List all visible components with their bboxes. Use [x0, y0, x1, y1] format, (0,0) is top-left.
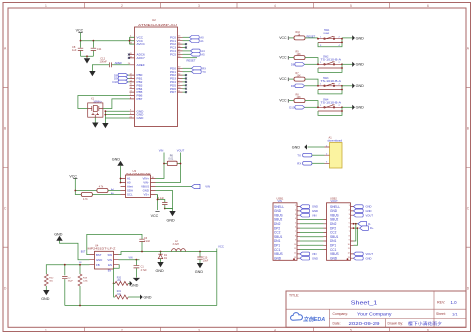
svg-text:10: 10 [294, 244, 296, 246]
net port A0 [183, 36, 205, 40]
svg-text:PB7: PB7 [137, 97, 143, 101]
switch SW4 TS-1010-B-A [318, 98, 342, 111]
svg-text:GND: GND [41, 297, 50, 301]
svg-text:12: 12 [294, 253, 296, 255]
svg-text:VCC: VCC [69, 174, 77, 178]
svg-text:9: 9 [349, 240, 350, 242]
U2 left pin stubs [130, 37, 135, 118]
svg-text:2: 2 [121, 4, 123, 8]
svg-text:GND: GND [274, 256, 282, 260]
capacitor C1 4.7uF [134, 260, 148, 278]
svg-text:VOUT: VOUT [177, 149, 185, 153]
svg-text:8: 8 [295, 235, 296, 237]
svg-text:D10: D10 [289, 106, 295, 110]
net port A1 [183, 39, 205, 43]
svg-text:樱下小清花雨夕: 樱下小清花雨夕 [408, 320, 442, 326]
svg-text:SW: SW [107, 253, 112, 257]
wire EN divider down [114, 283, 115, 297]
resistor R10 1k [294, 31, 318, 40]
U2 right pin stubs [178, 37, 183, 92]
net port GND (USB2) [354, 209, 372, 213]
svg-text:1/1: 1/1 [452, 311, 458, 316]
ground (R22) [41, 290, 50, 301]
USB1 pin numbers [294, 205, 296, 259]
svg-text:10uF: 10uF [203, 259, 209, 262]
resistor R21 10k [115, 291, 140, 299]
svg-text:EN: EN [108, 263, 112, 267]
svg-text:2: 2 [295, 210, 296, 212]
svg-text:VCC: VCC [218, 244, 224, 248]
connector A1 download [325, 136, 343, 169]
svg-text:BST: BST [96, 253, 102, 257]
ground (under C8/C11) [84, 58, 90, 63]
wire USB1-USB2 data/cc lines [300, 220, 324, 250]
svg-text:11: 11 [294, 248, 296, 250]
power flag VCC (SW3 row) [279, 77, 294, 81]
node VCC rail junctions [80, 40, 82, 42]
svg-text:7: 7 [295, 231, 296, 233]
svg-text:A4: A4 [201, 49, 205, 53]
svg-text:5: 5 [350, 328, 352, 332]
net port VIN (VBUS pin) [156, 184, 210, 188]
wire U4 GND pin to top-left ground [60, 240, 90, 260]
svg-text:GND: GND [112, 157, 121, 161]
no-connect marks [128, 43, 187, 93]
power flag VCC (U3 pullups) [69, 174, 77, 190]
svg-text:4.7k: 4.7k [83, 198, 88, 201]
svg-text:1: 1 [45, 4, 47, 8]
capacitor C6 2.2uF [139, 237, 150, 252]
net port GND (USB1 bottom) [300, 256, 318, 260]
svg-text:GND: GND [144, 296, 152, 300]
resistor R19 120k [78, 274, 89, 306]
svg-text:4.7uF: 4.7uF [141, 269, 148, 272]
wire SW2 to GND [342, 63, 352, 65]
USB2 left pin stubs [324, 220, 327, 250]
USB2 pin numbers [348, 205, 350, 259]
wire SW1 to GND [342, 37, 352, 39]
svg-text:SCL: SCL [127, 193, 133, 197]
wire crystal ground stem [94, 117, 96, 122]
svg-text:TX: TX [297, 153, 301, 157]
svg-text:R20: R20 [117, 277, 122, 279]
wire SW3 loop [318, 86, 342, 94]
wire VCC rail to U2 [81, 37, 135, 44]
diode D1 [158, 252, 167, 263]
svg-text:VOUT: VOUT [366, 213, 374, 217]
svg-text:C11: C11 [97, 47, 102, 51]
ground (buck top-left, arrow up) [54, 233, 63, 241]
svg-text:GND: GND [356, 106, 365, 110]
svg-text:VIN: VIN [205, 185, 210, 189]
svg-text:6: 6 [295, 227, 296, 229]
wire U3 VS+ pin [156, 195, 158, 211]
U3 pin stubs [121, 179, 156, 195]
connector USB1 (VIN) [273, 196, 297, 260]
ground (C10) [195, 263, 204, 274]
svg-text:8: 8 [349, 235, 350, 237]
svg-text:TITLE:: TITLE: [289, 294, 299, 298]
power flag VCC (U3 VS+) [151, 211, 160, 218]
svg-text:2.2uF: 2.2uF [144, 240, 151, 243]
svg-text:GND: GND [312, 256, 318, 260]
ground (U2 GND pins) [102, 123, 108, 128]
ground (crystal) [92, 123, 98, 128]
svg-text:2020-09-29: 2020-09-29 [349, 321, 381, 326]
svg-text:2: 2 [349, 210, 350, 212]
svg-text:Drawn By:: Drawn By: [388, 322, 404, 326]
svg-text:GND: GND [356, 36, 365, 40]
wire SW3 to GND [342, 85, 352, 87]
resistor R7 10K [294, 72, 318, 86]
net port GND (USB2 bottom) [354, 256, 372, 260]
svg-text:GND: GND [167, 218, 176, 222]
svg-text:VIN: VIN [129, 257, 133, 260]
svg-text:FB: FB [96, 263, 100, 267]
svg-text:9: 9 [295, 240, 296, 242]
svg-text:5: 5 [349, 222, 350, 224]
svg-text:GND: GND [195, 270, 204, 274]
svg-text:RX: RX [297, 162, 301, 166]
svg-text:VCC: VCC [279, 36, 287, 40]
svg-text:Company:: Company: [333, 312, 349, 316]
net port D+ (USB2 data) [360, 226, 374, 230]
net port RX (A1 pin3) [297, 162, 324, 166]
ground (SW4) [352, 105, 364, 110]
svg-text:AREF: AREF [137, 63, 145, 67]
node USB1 gnd junction [293, 258, 295, 260]
svg-text:D9: D9 [291, 84, 295, 88]
svg-text:VCC: VCC [279, 56, 287, 60]
svg-text:GND: GND [130, 284, 138, 288]
net port D- (USB2 data) [358, 222, 371, 226]
wire crystal right to PB7 [103, 99, 130, 109]
wire USB2 DN1 to DN2 [354, 224, 358, 241]
svg-text:reset: reset [324, 32, 330, 35]
svg-text:GND: GND [54, 233, 63, 237]
power flag VCC (SW1 row) [279, 36, 294, 40]
wire USB2 DP1 to DP2 [354, 228, 358, 245]
svg-text:6: 6 [427, 328, 429, 332]
svg-text:VIN: VIN [159, 149, 164, 153]
net port D8 (SW2) [291, 63, 318, 67]
net port D10 [112, 80, 129, 84]
svg-text:1N: 1N [79, 262, 82, 264]
svg-text:Sheet_1: Sheet_1 [351, 301, 378, 307]
svg-text:1uF: 1uF [72, 48, 77, 52]
wire SW rail [119, 252, 217, 255]
svg-text:GND: GND [356, 84, 365, 88]
svg-text:4: 4 [349, 218, 350, 220]
svg-text:GND: GND [366, 209, 372, 213]
wire C8/C11 bottoms [81, 56, 94, 58]
node USB2 gnd junction [347, 258, 349, 260]
svg-text:11: 11 [348, 248, 350, 250]
net port TX [183, 70, 206, 74]
wire PC2 PC3 stubs [183, 44, 186, 47]
wire SW1 loop [318, 39, 342, 47]
svg-text:VCC: VCC [279, 99, 287, 103]
resistor R22 30k [44, 274, 54, 290]
USB1 pin stubs [297, 207, 300, 259]
svg-text:3.3uH: 3.3uH [173, 243, 180, 246]
U3 left pin names [127, 177, 133, 197]
svg-text:VCC: VCC [279, 77, 287, 81]
U4 right pin names [107, 253, 112, 267]
svg-text:VIN: VIN [312, 213, 317, 217]
U3 right pin names [141, 177, 149, 197]
svg-text:AVCC: AVCC [137, 42, 146, 46]
USB2 pin names [330, 205, 340, 261]
ground (R21 flag) [140, 295, 152, 300]
svg-text:VCC: VCC [151, 214, 159, 218]
svg-text:D10: D10 [112, 80, 118, 84]
svg-text:PD7: PD7 [170, 90, 176, 94]
wire RESET net [183, 58, 198, 63]
svg-text:100nF: 100nF [100, 60, 108, 64]
svg-text:ADC7: ADC7 [137, 56, 146, 60]
resistor R5 4.7k (SCL pullup) [74, 190, 120, 202]
net port TX (A1 pin2) [297, 153, 324, 157]
svg-text:6: 6 [427, 4, 429, 8]
capacitor C4 0.1uF [158, 195, 168, 209]
svg-text:TS-1010-B-A: TS-1010-B-A [321, 58, 342, 61]
inductor L2 3.3uH [172, 240, 186, 251]
svg-text:GND: GND [156, 269, 165, 273]
net port GND (USB1) [300, 209, 318, 213]
net port VIN (USB1 vbus bottom) [300, 252, 317, 256]
ground (U3 GND) [165, 209, 176, 223]
power flag VCC (SW4 row) [279, 99, 294, 103]
svg-text:立创EDA: 立创EDA [303, 316, 325, 323]
wire BST bootstrap loop [87, 234, 142, 254]
svg-text:5: 5 [295, 222, 296, 224]
svg-text:A1: A1 [200, 39, 204, 43]
U2 left pin names [137, 35, 146, 120]
svg-text:1: 1 [295, 205, 296, 207]
ground (D1) [156, 262, 165, 273]
capacitor C11 [91, 41, 102, 57]
svg-text:TS-1010-B-A: TS-1010-B-A [321, 101, 342, 104]
resistor R20 20k [114, 277, 130, 285]
U2 pin numbers [128, 36, 181, 119]
net port VOUT (USB2 vbus bottom) [354, 252, 374, 256]
ground (SW2) [352, 62, 364, 67]
svg-text:1: 1 [45, 328, 47, 332]
wire PD2-PD7 stubs [183, 75, 186, 92]
svg-text:6: 6 [349, 227, 350, 229]
svg-text:GND: GND [96, 258, 102, 262]
net port D8 [114, 73, 129, 77]
wire FB divider rail [46, 265, 89, 276]
svg-text:REV:: REV: [437, 301, 445, 305]
resistor R6 0.01 shunt [163, 155, 181, 166]
wire VIN pin to C1 [119, 259, 140, 261]
ground (SW3) [352, 83, 364, 88]
U2 right pin names [170, 35, 176, 94]
switch SW3 TS-1010-B-A [318, 77, 342, 90]
svg-text:TX: TX [202, 70, 206, 74]
wire SW2 loop [318, 64, 342, 72]
svg-text:4: 4 [295, 218, 296, 220]
ground (A1 pin1 flag) [292, 144, 325, 149]
svg-text:VS+: VS+ [143, 193, 149, 197]
svg-text:7: 7 [349, 231, 350, 233]
net port RX [183, 67, 207, 71]
power flag VCC (SW2 row) [279, 56, 294, 60]
wire VCC output node down to divider [216, 252, 218, 306]
svg-text:3: 3 [198, 4, 200, 8]
TITLE BLOCK [286, 291, 466, 327]
capacitor C8 [72, 41, 83, 57]
svg-text:MP2451DT-LF-Z: MP2451DT-LF-Z [88, 247, 117, 251]
svg-text:VIN: VIN [312, 252, 317, 256]
svg-text:BST: BST [81, 250, 86, 253]
svg-text:D-: D- [368, 222, 371, 226]
resistor R8 10K [294, 94, 318, 108]
regulator U4 MP2451DT-LF-Z body [88, 243, 117, 269]
svg-text:2: 2 [121, 328, 123, 332]
capacitor C10 10uF [197, 252, 208, 264]
capacitor C12 100nF (AREF) [92, 57, 129, 71]
net port VIN (USB1 vbus) [300, 213, 317, 217]
svg-text:GND: GND [137, 116, 145, 120]
svg-text:Your Company: Your Company [357, 312, 393, 317]
svg-text:GND: GND [330, 256, 338, 260]
svg-text:D+: D+ [370, 226, 374, 230]
connector USB2 (VOUT) [327, 196, 351, 260]
svg-text:3: 3 [198, 328, 200, 332]
svg-text:1: 1 [349, 205, 350, 207]
node VOUT label (shunt right) [156, 149, 185, 183]
svg-text:U2: U2 [152, 18, 156, 22]
svg-text:3: 3 [295, 214, 296, 216]
wire U3 GND pin [156, 191, 173, 209]
svg-text:D8: D8 [291, 63, 295, 67]
net port D9 [114, 77, 129, 81]
svg-text:GND: GND [366, 205, 372, 209]
U4 pin stubs [90, 255, 119, 265]
net port A5 [183, 53, 206, 57]
wire SW4 to GND [342, 106, 352, 108]
svg-text:EN: EN [108, 270, 112, 273]
node VIN label (shunt left) [156, 149, 165, 179]
svg-text:VOUT: VOUT [366, 252, 374, 256]
ground (SW1) [352, 35, 364, 40]
svg-text:4: 4 [274, 4, 276, 8]
switch SW1 reset [318, 29, 342, 47]
svg-text:RESET: RESET [187, 59, 196, 63]
svg-text:0.01: 0.01 [169, 158, 174, 161]
svg-text:RESET: RESET [307, 34, 316, 38]
ground (R20 flag) [130, 281, 133, 286]
svg-text:R21: R21 [117, 291, 122, 293]
svg-text:RX: RX [202, 67, 206, 71]
svg-text:PC5: PC5 [170, 52, 176, 56]
svg-text:VIN: VIN [107, 258, 112, 262]
resistor R9 10K [294, 51, 318, 65]
net port D10 (SW4) [289, 106, 318, 110]
wire crystal left to PB6 [78, 96, 130, 109]
capacitor C2 33pF [62, 277, 73, 306]
svg-text:A5: A5 [201, 53, 205, 57]
net port A4 [183, 49, 206, 53]
svg-text:download: download [328, 139, 343, 143]
USB1 pin names [274, 205, 284, 261]
svg-text:GND: GND [312, 205, 318, 209]
net port D9 (SW3) [291, 84, 318, 88]
svg-text:3: 3 [349, 214, 350, 216]
resistor R4 4.7k (SDA pullup) [75, 186, 120, 193]
ground (U3 A1/A0, arrow up) [112, 157, 124, 183]
svg-text:Sheet:: Sheet: [436, 312, 446, 316]
svg-text:GND: GND [356, 63, 365, 67]
svg-text:ATMEGA328P-AU: ATMEGA328P-AU [138, 23, 177, 27]
svg-text:5: 5 [350, 4, 352, 8]
svg-text:GND: GND [312, 209, 318, 213]
switch SW2 TS-1010-B-A [318, 55, 342, 68]
svg-text:33pF: 33pF [68, 280, 74, 282]
svg-text:TS-1010-B-A: TS-1010-B-A [321, 80, 342, 83]
net port GND (USB2 shell) [354, 205, 372, 209]
svg-text:A0: A0 [200, 36, 204, 40]
ground (AREF cap) [89, 71, 95, 76]
USB2 right pin stubs [351, 207, 354, 259]
U4 left pin names [96, 253, 102, 267]
svg-text:AREF: AREF [115, 61, 123, 65]
net port VOUT (USB2 vbus) [354, 213, 374, 217]
power flag VCC (top left) [76, 29, 84, 41]
ground (C1) [130, 278, 140, 288]
svg-text:1.0: 1.0 [451, 300, 458, 305]
power flag VCC (buck output) [217, 244, 224, 251]
svg-text:10: 10 [348, 244, 350, 246]
ic U2 ATMEGA328P-AU body [135, 18, 178, 127]
svg-text:GND: GND [366, 256, 372, 260]
wire SW4 loop [318, 107, 342, 115]
svg-text:Date:: Date: [333, 322, 341, 326]
svg-text:12: 12 [348, 253, 350, 255]
svg-text:VCC: VCC [76, 29, 84, 33]
svg-text:GND: GND [292, 146, 301, 150]
wire divider bottom rail to VCC node [65, 305, 217, 307]
ic U3 INA226AIDGSR body [126, 169, 151, 198]
net port GND (USB1 shell) [300, 205, 318, 209]
wire EN pin [114, 265, 120, 284]
crystal X1 16MHz [88, 98, 103, 118]
svg-text:4: 4 [274, 328, 276, 332]
wire U2 GND pins [105, 111, 129, 123]
